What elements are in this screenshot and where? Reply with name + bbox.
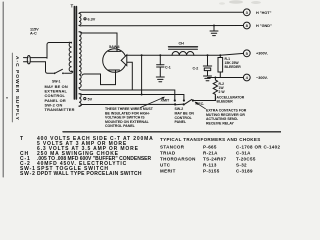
switch SW-2 blade lower: [175, 103, 184, 106]
wire 6.3V top lead to terminal 3: [79, 12, 243, 13]
wire CT lead: [82, 74, 101, 75]
svg-text:STANCOR: STANCOR: [160, 145, 185, 150]
capacitor C-1: [159, 54, 161, 56]
separator rule above parts list: [63, 131, 281, 133]
svg-text:BLEEDER: BLEEDER: [217, 100, 234, 104]
svg-text:TRANSMITTER: TRANSMITTER: [45, 107, 75, 112]
switch SW-2 blade transfer: [184, 99, 192, 104]
transformer T core: [73, 7, 75, 100]
HV secondary winding: [79, 32, 81, 88]
switch SW-1: [54, 72, 56, 74]
svg-text:BLEEDER: BLEEDER: [225, 65, 242, 69]
svg-text:8: 8: [246, 23, 249, 28]
caption bracket line: [11, 53, 13, 122]
terminal 5: [243, 50, 250, 57]
ground below C-1: [156, 76, 164, 78]
svg-text:6.3V: 6.3V: [88, 18, 96, 22]
svg-text:5AW4: 5AW4: [109, 44, 120, 49]
svg-text:UTC: UTC: [160, 163, 171, 168]
ground below C-2: [204, 75, 212, 77]
leader arrow extra contacts: [196, 102, 206, 109]
wire HV top lead to plate: [79, 32, 117, 52]
svg-text:XMIT: XMIT: [161, 99, 171, 103]
wire 6.3V bottom lead to terminal 8: [79, 24, 243, 27]
svg-text:+300V.: +300V.: [256, 52, 268, 56]
svg-text:4: 4: [246, 75, 249, 80]
svg-text:SW-1: SW-1: [52, 80, 61, 84]
svg-text:A-C POWER SUPPLY: A-C POWER SUPPLY: [14, 56, 20, 121]
svg-text:5: 5: [246, 51, 249, 56]
junction B+ takeoff: [141, 54, 143, 56]
label 5V: [84, 98, 86, 100]
svg-text:T: T: [20, 136, 24, 142]
svg-text:R-113: R-113: [203, 163, 217, 168]
svg-text:TRIAD: TRIAD: [160, 151, 176, 156]
svg-text:H "HOT": H "HOT": [256, 11, 272, 15]
svg-text:C-31A: C-31A: [236, 151, 251, 156]
wire REC contact: [192, 99, 194, 101]
rectifier tube 5AW4: [103, 49, 127, 73]
svg-text:TYPICAL TRANSFORMERS AND CHOKE: TYPICAL TRANSFORMERS AND CHOKES: [160, 137, 261, 142]
parts list left column: [20, 136, 154, 177]
svg-text:5V: 5V: [88, 97, 93, 101]
wire plate2 riser: [127, 62, 133, 90]
svg-text:P-665: P-665: [203, 145, 217, 150]
wire three-wire 3: [79, 104, 175, 106]
svg-text:C-3189: C-3189: [236, 169, 253, 174]
parts list transformers table: [160, 137, 281, 174]
AC plug: [24, 57, 29, 59]
svg-text:2 W: 2 W: [219, 90, 226, 94]
svg-text:R-21A: R-21A: [203, 151, 218, 156]
svg-text:SW-2: SW-2: [20, 171, 36, 177]
terminal 4: [243, 74, 250, 81]
svg-text:THORDARSON: THORDARSON: [160, 157, 196, 162]
svg-text:A-C: A-C: [30, 32, 37, 36]
svg-text:P-3155: P-3155: [203, 169, 220, 174]
ground on heater gnd wire: [213, 25, 215, 27]
wire three-wire 2 (B+ return): [79, 94, 184, 100]
switch SW-2 contacts row 2: [174, 103, 176, 105]
svg-text:CH: CH: [179, 42, 185, 46]
wire plug bottom down to SW-1 row: [30, 62, 53, 74]
svg-text:H "GND": H "GND": [256, 24, 272, 28]
svg-text:TS-24R07: TS-24R07: [203, 157, 226, 162]
6.3V winding: [79, 13, 81, 25]
wire plug top to primary: [30, 57, 47, 59]
svg-text:T-20C55: T-20C55: [236, 157, 256, 162]
resistor R-1 bleeder: [219, 54, 221, 56]
terminal 3: [243, 9, 250, 16]
svg-text:C-1: C-1: [165, 65, 171, 69]
resistor R-2: [213, 78, 217, 101]
wire B+ down to switch: [141, 55, 143, 94]
5V winding: [79, 94, 81, 107]
svg-text:3: 3: [246, 10, 249, 15]
wire HV bottom lead (three-wire 1): [79, 88, 175, 100]
svg-text:RECEIVE RELAY: RECEIVE RELAY: [206, 121, 235, 125]
terminal 8: [243, 22, 250, 29]
label 6.3V: [84, 18, 86, 20]
leader arrow three wires: [141, 97, 165, 107]
capacitor C-2 electrolytic: [207, 54, 209, 56]
svg-text:MERIT: MERIT: [160, 169, 176, 174]
wire B+ rail: [127, 53, 244, 55]
wire negative rail: [208, 77, 244, 79]
wire primary top lead: [47, 42, 72, 58]
switch SW-2 contacts row 1: [174, 99, 176, 101]
wire primary bottom lead to SW-1: [65, 71, 73, 73]
svg-text:PANEL: PANEL: [175, 120, 187, 124]
wire filament lead down: [115, 70, 117, 85]
svg-text:C-1708 OR C-1402: C-1708 OR C-1402: [236, 145, 281, 150]
svg-text:T: T: [71, 4, 74, 9]
svg-text:CONTROL PANEL: CONTROL PANEL: [105, 124, 136, 128]
wire filament U-loop: [101, 74, 116, 85]
choke CH: [169, 46, 198, 48]
svg-text:DPDT WALL TYPE PORCELAIN SWITC: DPDT WALL TYPE PORCELAIN SWITCH: [37, 171, 142, 177]
svg-text:−300V.: −300V.: [256, 76, 268, 80]
svg-text:C-2: C-2: [193, 67, 199, 71]
svg-text:S-32: S-32: [236, 163, 247, 168]
primary winding: [69, 42, 71, 71]
